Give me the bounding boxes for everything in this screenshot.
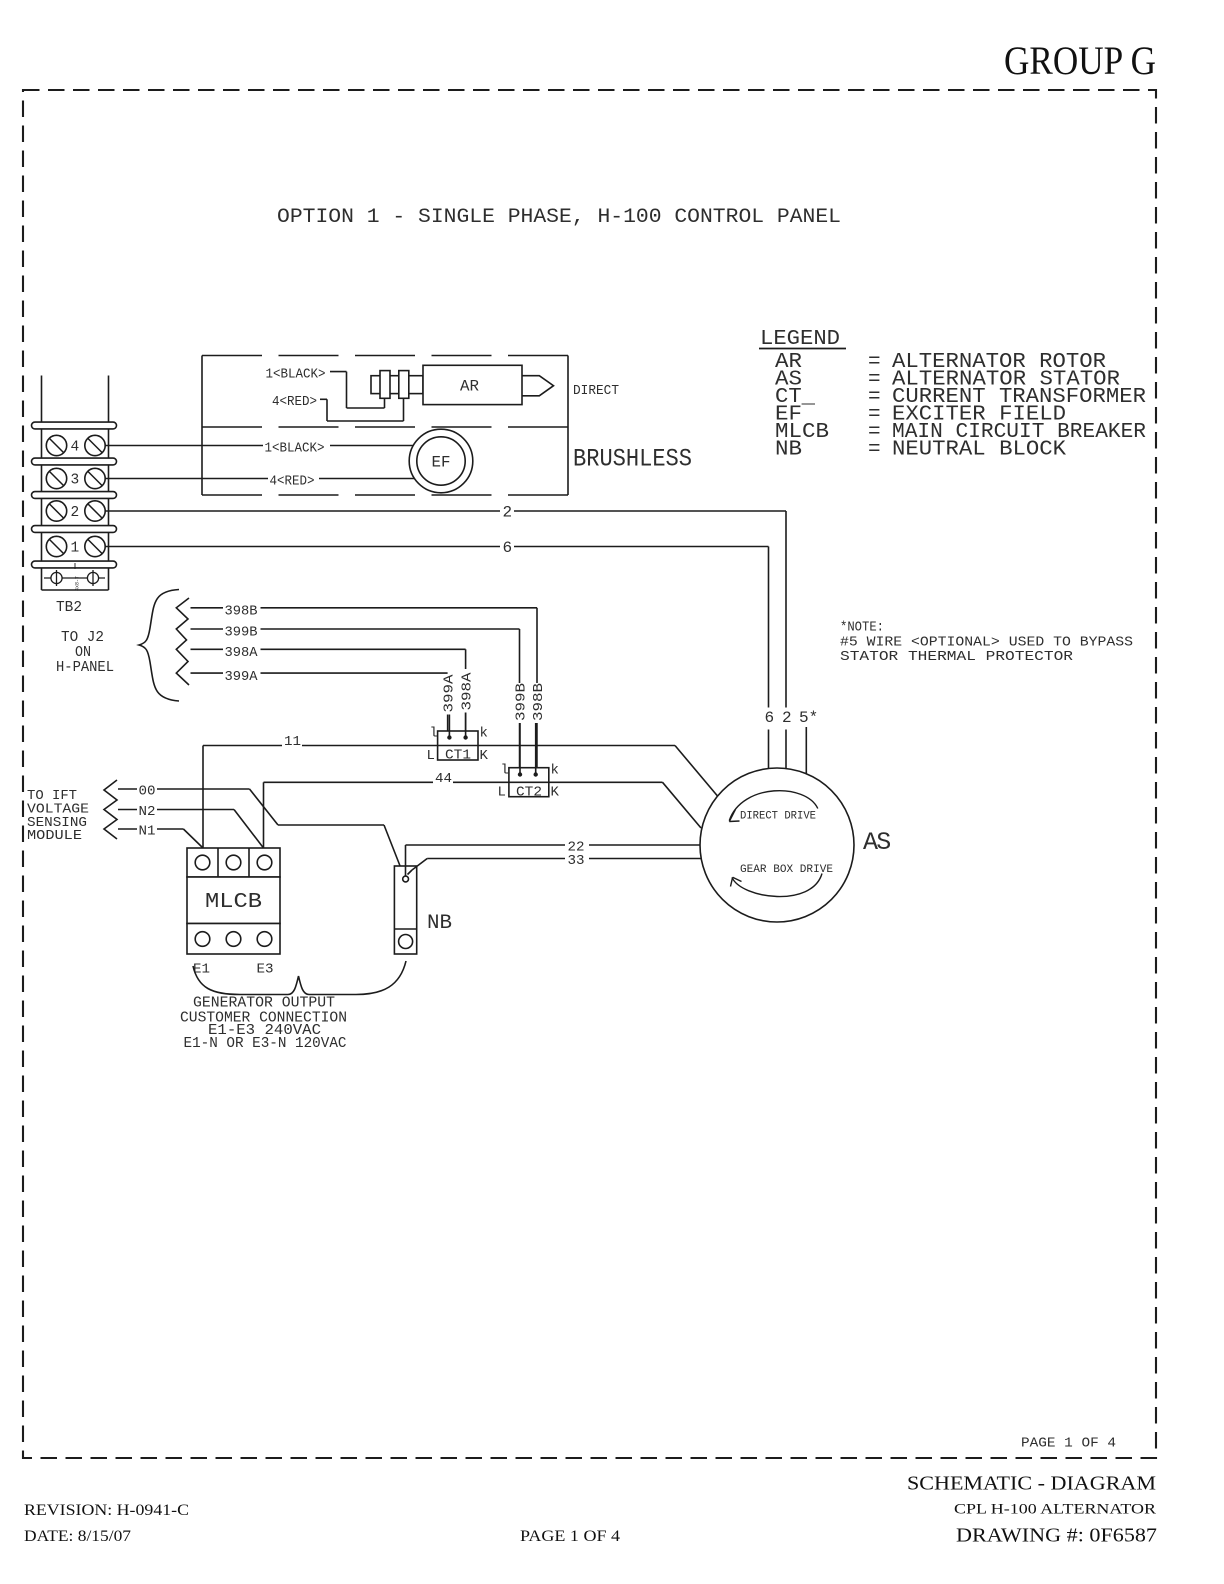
svg-text:2: 2 bbox=[71, 505, 80, 521]
svg-text:398A: 398A bbox=[225, 645, 259, 661]
svg-text:44: 44 bbox=[435, 771, 452, 787]
svg-text:EF: EF bbox=[432, 454, 451, 472]
wire 44 diagonal into AS bbox=[663, 782, 702, 828]
wire terminal4 to EF (1 BLACK) bbox=[106, 445, 264, 447]
svg-text:AR: AR bbox=[460, 378, 479, 396]
svg-text:PAGE 1 OF 4: PAGE 1 OF 4 bbox=[520, 1528, 620, 1545]
wire terminal3 to EF (4 RED) bbox=[106, 478, 269, 480]
svg-text:*NOTE:: *NOTE: bbox=[840, 620, 884, 636]
harness brace to J2 bbox=[139, 590, 179, 702]
svg-text:CT1: CT1 bbox=[445, 748, 471, 764]
customer connection brace bbox=[193, 961, 406, 995]
svg-text:399B: 399B bbox=[514, 683, 529, 721]
svg-text:DIRECT: DIRECT bbox=[573, 383, 619, 399]
wire 11 from MLCB E1 to CT1 bbox=[202, 746, 204, 856]
svg-text:CT2: CT2 bbox=[516, 784, 542, 800]
svg-text:E1-N OR E3-N 120VAC: E1-N OR E3-N 120VAC bbox=[184, 1036, 347, 1052]
harness zigzag arrows 398B/399B/398A/399A bbox=[176, 598, 189, 685]
svg-text:1<BLACK>: 1<BLACK> bbox=[265, 441, 325, 457]
svg-text:TO J2: TO J2 bbox=[61, 630, 104, 646]
svg-text:1: 1 bbox=[71, 541, 80, 557]
svg-text:399A: 399A bbox=[442, 673, 457, 712]
svg-text:AS: AS bbox=[863, 828, 890, 857]
wire 44 from MLCB E3 to CT2 bbox=[263, 782, 265, 855]
wire 6 from TB2 terminal 1 bbox=[106, 546, 501, 548]
slip ring 1 bbox=[380, 371, 390, 399]
svg-text:#5 WIRE <OPTIONAL> USED TO BYP: #5 WIRE <OPTIONAL> USED TO BYPASS bbox=[840, 634, 1133, 650]
current transformer CT2 bbox=[509, 768, 549, 797]
current transformer CT1 bbox=[438, 731, 478, 760]
slip ring 2 bbox=[399, 371, 409, 399]
svg-text:N2: N2 bbox=[139, 804, 156, 820]
wire 399B bbox=[191, 628, 224, 630]
svg-text:k: k bbox=[480, 726, 488, 742]
wire 00 bbox=[118, 788, 137, 790]
terminal block TB2 body bbox=[41, 376, 43, 591]
wire 4(RED) to slip rings bbox=[320, 398, 327, 400]
svg-text:2: 2 bbox=[782, 709, 792, 727]
svg-text:GEAR BOX DRIVE: GEAR BOX DRIVE bbox=[740, 864, 833, 876]
alternator excitation box outline bbox=[201, 356, 203, 496]
svg-text:2: 2 bbox=[503, 504, 513, 522]
wire 398A bbox=[191, 648, 224, 650]
svg-text:=: = bbox=[868, 439, 881, 462]
svg-text:399A: 399A bbox=[225, 669, 259, 685]
svg-text:6: 6 bbox=[503, 539, 513, 557]
svg-text:33: 33 bbox=[568, 853, 585, 869]
svg-text:11: 11 bbox=[284, 734, 301, 750]
svg-text:CPL H-100 ALTERNATOR: CPL H-100 ALTERNATOR bbox=[954, 1502, 1156, 1518]
wire 398B bbox=[191, 607, 224, 609]
TB2 separator bars bbox=[32, 422, 117, 429]
svg-text:K: K bbox=[551, 785, 560, 801]
neutral block NB bbox=[394, 866, 416, 954]
svg-text:5*: 5* bbox=[799, 709, 818, 727]
alternator stator AS circle bbox=[700, 768, 854, 922]
svg-text:H-PANEL: H-PANEL bbox=[56, 660, 114, 676]
wire 33 bbox=[412, 859, 427, 871]
svg-text:4x8-T: 4x8-T bbox=[74, 576, 80, 591]
divider direct/brushless (dashed) bbox=[202, 426, 568, 428]
svg-text:L: L bbox=[498, 785, 506, 801]
wire 2 from TB2 terminal 2 bbox=[106, 510, 501, 512]
svg-text:PAGE 1 OF 4: PAGE 1 OF 4 bbox=[1021, 1436, 1116, 1452]
svg-text:NB: NB bbox=[775, 439, 802, 462]
svg-text:4: 4 bbox=[71, 440, 80, 456]
gear box drive rotation arc bbox=[732, 874, 822, 897]
direct drive rotation arc bbox=[729, 791, 818, 821]
svg-text:3: 3 bbox=[71, 473, 80, 489]
svg-text:DRAWING #: 0F6587: DRAWING #: 0F6587 bbox=[956, 1526, 1157, 1547]
wire N1 bbox=[118, 828, 137, 830]
wire 11 diagonal into AS bbox=[675, 746, 718, 797]
rotor shaft bbox=[371, 376, 423, 394]
svg-text:ON: ON bbox=[75, 645, 91, 661]
IFT harness zigzag arrows bbox=[104, 780, 117, 839]
svg-text:398B: 398B bbox=[532, 683, 547, 721]
main circuit breaker MLCB bbox=[187, 848, 280, 877]
svg-text:OPTION 1 - SINGLE PHASE, H-100: OPTION 1 - SINGLE PHASE, H-100 CONTROL P… bbox=[277, 206, 841, 229]
exciter field EF coil bbox=[409, 429, 473, 493]
rotor shaft tip bbox=[522, 376, 554, 396]
svg-text:LEGEND: LEGEND bbox=[760, 328, 840, 351]
svg-text:NB: NB bbox=[427, 912, 452, 935]
svg-text:TB2: TB2 bbox=[56, 600, 82, 616]
svg-text:K: K bbox=[480, 748, 489, 764]
svg-text:GENERATOR OUTPUT: GENERATOR OUTPUT bbox=[193, 996, 335, 1012]
svg-text:6: 6 bbox=[765, 709, 775, 727]
TB2 lower mounting circles bbox=[44, 577, 105, 579]
wire 22 bbox=[405, 845, 407, 876]
wire 399A bbox=[191, 672, 224, 674]
svg-text:L: L bbox=[427, 748, 435, 764]
svg-text:NEUTRAL BLOCK: NEUTRAL BLOCK bbox=[892, 439, 1066, 462]
svg-text:E3: E3 bbox=[257, 962, 274, 978]
svg-text:MODULE: MODULE bbox=[27, 828, 82, 844]
svg-text:l: l bbox=[430, 726, 438, 742]
svg-text:00: 00 bbox=[139, 784, 156, 800]
svg-text:STATOR THERMAL PROTECTOR: STATOR THERMAL PROTECTOR bbox=[840, 649, 1074, 665]
svg-text:MLCB: MLCB bbox=[205, 891, 262, 914]
svg-text:4<RED>: 4<RED> bbox=[270, 474, 315, 490]
svg-text:DATE: 8/15/07: DATE: 8/15/07 bbox=[24, 1528, 131, 1545]
svg-text:DIRECT DRIVE: DIRECT DRIVE bbox=[740, 811, 816, 823]
svg-text:4<RED>: 4<RED> bbox=[272, 394, 317, 410]
svg-text:k: k bbox=[551, 763, 559, 779]
svg-text:398B: 398B bbox=[225, 604, 258, 620]
svg-text:BRUSHLESS: BRUSHLESS bbox=[573, 445, 692, 474]
svg-text:l: l bbox=[501, 763, 509, 779]
alternator rotor AR box bbox=[423, 365, 522, 404]
wire 1(BLACK) to slip rings bbox=[330, 371, 347, 373]
svg-text:SCHEMATIC - DIAGRAM: SCHEMATIC - DIAGRAM bbox=[907, 1474, 1156, 1495]
svg-text:1<BLACK>: 1<BLACK> bbox=[266, 367, 326, 383]
svg-text:REVISION: H-0941-C: REVISION: H-0941-C bbox=[24, 1502, 189, 1519]
TB2 screw terminals rows 4..1 bbox=[46, 435, 66, 455]
page border (dashed drawing frame) bbox=[23, 90, 1156, 1458]
wire N2 bbox=[118, 809, 137, 811]
svg-text:GROUP G: GROUP G bbox=[1004, 38, 1156, 83]
svg-text:N1: N1 bbox=[139, 824, 156, 840]
svg-text:398A: 398A bbox=[460, 671, 475, 710]
svg-text:399B: 399B bbox=[225, 625, 258, 641]
